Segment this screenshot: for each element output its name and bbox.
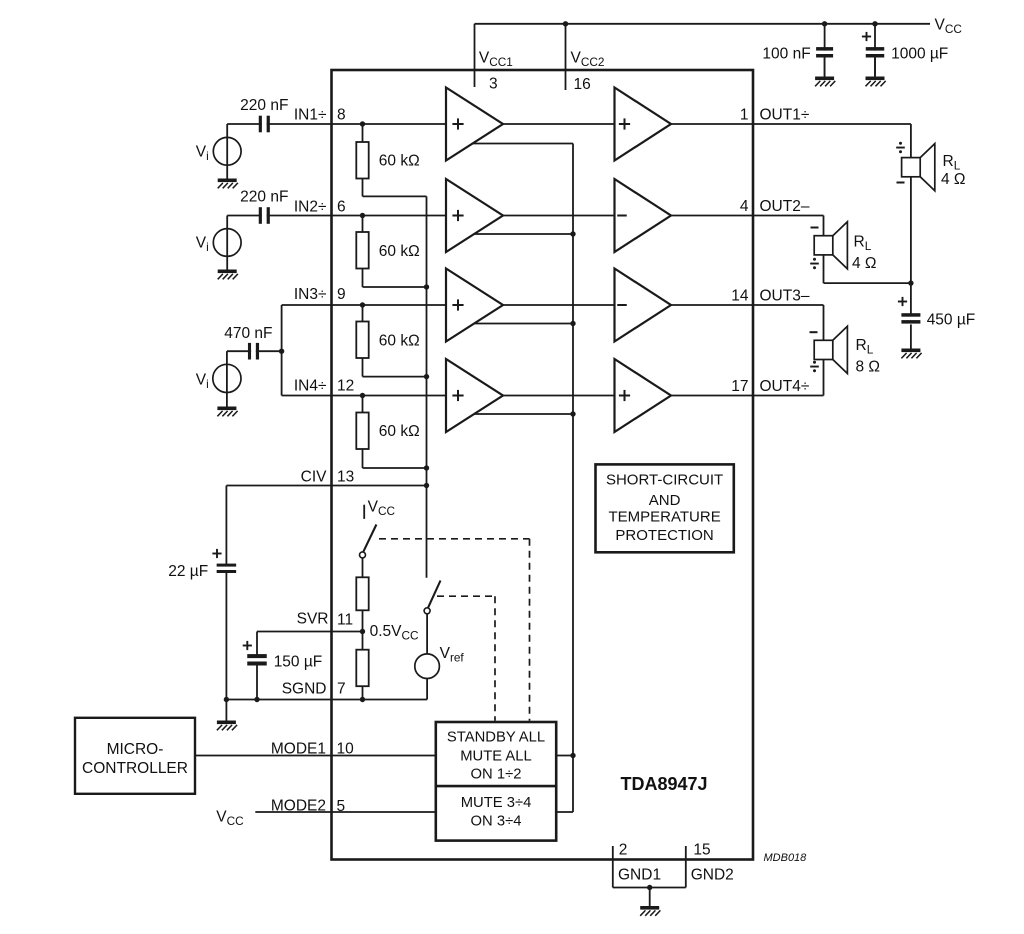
svg-text:MDB018: MDB018 <box>764 852 808 864</box>
svg-text:ON 3÷4: ON 3÷4 <box>471 814 522 830</box>
svg-text:150 µF: 150 µF <box>274 654 323 671</box>
svg-text:1: 1 <box>740 107 749 124</box>
svg-text:15: 15 <box>693 842 710 859</box>
svg-text:AND: AND <box>649 492 681 509</box>
svg-text:60 kΩ: 60 kΩ <box>379 423 420 440</box>
svg-text:IN4÷: IN4÷ <box>294 378 327 395</box>
svg-text:60 kΩ: 60 kΩ <box>379 152 420 169</box>
svg-text:60 kΩ: 60 kΩ <box>379 332 420 349</box>
svg-text:14: 14 <box>731 288 749 305</box>
svg-text:PROTECTION: PROTECTION <box>615 527 713 544</box>
svg-text:MUTE ALL: MUTE ALL <box>460 748 532 764</box>
svg-text:12: 12 <box>337 378 354 395</box>
svg-text:4 Ω: 4 Ω <box>852 255 877 272</box>
svg-text:ON 1÷2: ON 1÷2 <box>471 766 522 782</box>
svg-text:470 nF: 470 nF <box>224 325 272 342</box>
svg-text:MICRO-: MICRO- <box>107 741 164 758</box>
svg-text:17: 17 <box>731 378 748 395</box>
svg-text:1000 µF: 1000 µF <box>891 46 948 63</box>
svg-text:9: 9 <box>337 286 346 303</box>
svg-text:SVR: SVR <box>297 611 329 628</box>
svg-text:2: 2 <box>619 842 628 859</box>
svg-text:5: 5 <box>337 798 346 815</box>
svg-text:OUT4÷: OUT4÷ <box>760 378 810 395</box>
svg-text:13: 13 <box>337 469 354 486</box>
svg-text:GND1: GND1 <box>618 867 661 884</box>
svg-text:8 Ω: 8 Ω <box>856 359 881 376</box>
svg-text:7: 7 <box>337 681 346 698</box>
svg-text:SGND: SGND <box>282 681 327 698</box>
svg-text:4 Ω: 4 Ω <box>941 171 966 188</box>
svg-text:6: 6 <box>337 199 346 216</box>
svg-text:OUT2–: OUT2– <box>760 198 810 215</box>
svg-text:CIV: CIV <box>301 469 328 486</box>
svg-text:4: 4 <box>740 198 749 215</box>
svg-text:TDA8947J: TDA8947J <box>620 774 707 794</box>
svg-text:450 µF: 450 µF <box>927 312 976 329</box>
svg-text:OUT3–: OUT3– <box>760 288 810 305</box>
svg-text:60 kΩ: 60 kΩ <box>379 243 420 260</box>
svg-text:10: 10 <box>337 741 355 758</box>
svg-text:GND2: GND2 <box>691 867 734 884</box>
svg-text:SHORT-CIRCUIT: SHORT-CIRCUIT <box>606 472 723 489</box>
svg-text:TEMPERATURE: TEMPERATURE <box>608 509 720 526</box>
svg-text:IN2÷: IN2÷ <box>294 199 327 216</box>
svg-text:IN1÷: IN1÷ <box>294 107 327 124</box>
svg-text:220 nF: 220 nF <box>240 189 288 206</box>
svg-text:MODE1: MODE1 <box>271 741 326 758</box>
svg-text:16: 16 <box>574 76 591 93</box>
svg-text:220 nF: 220 nF <box>240 97 288 114</box>
svg-text:11: 11 <box>337 612 353 629</box>
svg-text:3: 3 <box>489 76 498 93</box>
svg-text:IN3÷: IN3÷ <box>294 286 327 303</box>
svg-text:8: 8 <box>337 107 346 124</box>
svg-text:STANDBY ALL: STANDBY ALL <box>447 730 545 746</box>
svg-text:CONTROLLER: CONTROLLER <box>82 760 188 777</box>
svg-text:22 µF: 22 µF <box>168 563 208 580</box>
svg-text:100 nF: 100 nF <box>762 46 810 63</box>
svg-text:MODE2: MODE2 <box>271 798 326 815</box>
svg-text:OUT1÷: OUT1÷ <box>760 107 810 124</box>
svg-text:MUTE 3÷4: MUTE 3÷4 <box>461 795 532 811</box>
